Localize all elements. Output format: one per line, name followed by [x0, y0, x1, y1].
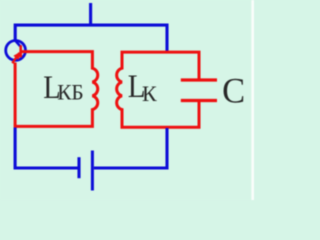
svg-text:КБ: КБ: [57, 80, 83, 104]
battery B1 long plate: [91, 151, 94, 191]
transistor Q1 collector inner lead: [15, 41, 20, 47]
wire: top stub going up: [89, 3, 92, 25]
inductor L1 (L_KB) left tank loop: [15, 52, 98, 127]
label L_KB: [43, 68, 83, 105]
svg-text:К: К: [142, 81, 157, 106]
capacitor C plates: [181, 80, 217, 101]
label C: [222, 70, 245, 110]
label L_K: [128, 69, 157, 106]
transistor Q1 circle: [6, 41, 26, 61]
svg-text:C: C: [222, 70, 245, 110]
battery B1 short plate: [77, 157, 80, 178]
wire: blue bottom left wire: [15, 128, 77, 169]
wire: blue collector/top supply wire: [15, 25, 167, 52]
inductor L2 (L_K) / right tank loop: [117, 52, 199, 127]
transistor Q1 base bar: [19, 45, 22, 57]
wire: blue bottom right wire: [94, 128, 167, 168]
transistor Q1 emitter with arrow: [12, 52, 20, 63]
